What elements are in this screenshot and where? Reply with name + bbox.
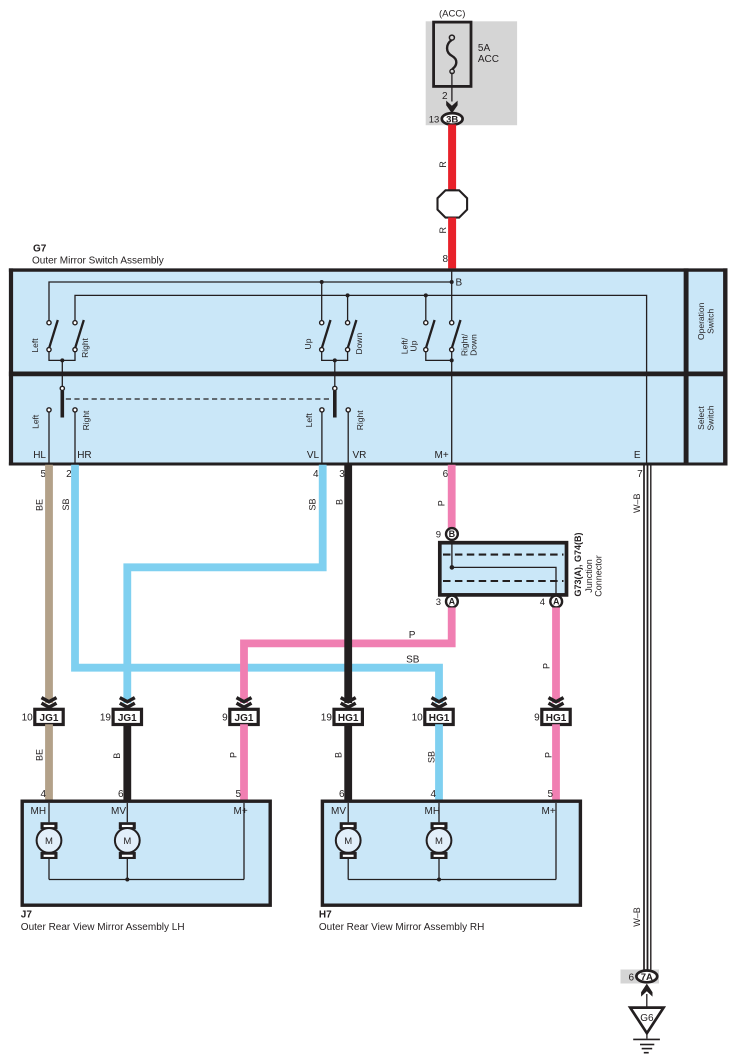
dashed link between select poles (66, 398, 332, 400)
svg-text:Up: Up (303, 338, 313, 349)
svg-text:JG1: JG1 (118, 713, 137, 724)
junction connector dashed rows (443, 554, 564, 556)
wire to ground point (646, 994, 648, 1008)
svg-text:J7: J7 (21, 910, 33, 921)
svg-text:P: P (409, 630, 416, 641)
wire pin8 stub to node B (451, 271, 453, 282)
junction (333, 358, 337, 362)
junction (60, 358, 64, 362)
svg-text:M: M (45, 836, 53, 847)
wire B from HG1-19 to H7 pin6 (344, 724, 352, 802)
wire MV pin to motor (126, 803, 128, 822)
arrow from ground into 7A (641, 984, 652, 997)
wire B from VR pin3 to HG1-19 (344, 465, 352, 703)
wire MH pin to motor (48, 803, 50, 822)
wire motor to common bus (48, 859, 50, 880)
wire motor to common bus (126, 859, 128, 880)
svg-text:Switch: Switch (705, 405, 715, 430)
splice octagon (438, 190, 468, 217)
wire Down switch to bus (347, 295, 349, 320)
mirror assembly J7 box (22, 801, 270, 905)
motor M mirror vertical LH (115, 822, 140, 859)
connector 7A oval (636, 971, 657, 983)
svg-text:B: B (112, 753, 122, 759)
connector 10 HG1 (412, 698, 454, 725)
wire P from JG1-9 to J7 pin5 (240, 724, 248, 802)
bus wire from Left switch to node B (49, 282, 452, 321)
svg-text:M: M (344, 836, 352, 847)
svg-text:M+: M+ (542, 806, 556, 817)
junction (424, 293, 428, 297)
svg-text:B: B (334, 499, 344, 505)
svg-text:JG1: JG1 (40, 713, 59, 724)
wire P from HG1-9 to H7 pin5 (552, 724, 560, 802)
motor M mirror horizontal RH (427, 822, 452, 859)
wire to select switch pole R (334, 360, 336, 386)
svg-text:G6: G6 (640, 1013, 654, 1024)
fuse pin 2 wire (451, 73, 453, 102)
svg-text:B: B (449, 529, 456, 539)
svg-text:Right: Right (355, 410, 365, 430)
svg-text:H7: H7 (319, 910, 332, 921)
H7 common bus (348, 879, 556, 881)
motor M mirror horizontal LH (37, 822, 62, 859)
wire Up switch to bus (321, 282, 323, 321)
connector 7A gray block (621, 970, 660, 984)
svg-text:A: A (553, 597, 560, 607)
operation switch contact Right/Down (450, 320, 461, 352)
svg-text:19: 19 (321, 712, 333, 723)
svg-text:HR: HR (77, 450, 91, 461)
wire SB from VL pin4 to JG1-19 (127, 465, 322, 703)
svg-text:10: 10 (412, 712, 424, 723)
svg-text:9: 9 (436, 530, 441, 541)
junction (450, 565, 455, 570)
connector 9 HG1 (534, 698, 570, 725)
wire SB from HR pin2 to HG1-10 (75, 465, 439, 703)
svg-text:9: 9 (222, 712, 228, 723)
svg-text:SB: SB (426, 751, 436, 763)
node B (450, 280, 454, 284)
svg-text:M+: M+ (435, 450, 449, 461)
wire M+ pin to common bus (243, 803, 245, 880)
svg-text:MV: MV (111, 806, 126, 817)
svg-text:P: P (544, 752, 554, 758)
arrow into connector 3B (446, 101, 457, 114)
svg-text:7: 7 (637, 469, 643, 480)
svg-text:Select: Select (696, 406, 706, 430)
wire BE from JG1-10 to J7 pin4 (45, 724, 53, 802)
svg-text:10: 10 (22, 712, 34, 723)
svg-text:Operation: Operation (696, 302, 706, 340)
svg-text:W–B: W–B (632, 907, 642, 927)
svg-text:3: 3 (436, 597, 441, 608)
wire joining Left\Up + Right\Down contacts (426, 352, 452, 361)
svg-text:19: 19 (100, 712, 112, 723)
junction (346, 293, 350, 297)
connector 10 JG1 (22, 698, 64, 725)
wire MH pin to motor (438, 803, 440, 822)
power source gray block (426, 21, 517, 125)
svg-text:Outer Mirror Switch Assembly: Outer Mirror Switch Assembly (32, 256, 164, 267)
junction (320, 280, 324, 284)
svg-text:R: R (438, 161, 448, 168)
wire node B to Right/Down switch (451, 282, 453, 321)
svg-text:5: 5 (235, 789, 241, 800)
svg-text:P: P (229, 752, 239, 758)
side label strip (684, 268, 689, 465)
divider operation/select (9, 372, 728, 377)
wire P from junction connector A3 to JG1-9 (244, 608, 452, 704)
ground point G6 triangle (630, 1008, 663, 1034)
svg-text:BE: BE (35, 499, 45, 511)
junction (125, 878, 129, 882)
select contact VR (346, 408, 350, 463)
svg-text:6: 6 (118, 789, 124, 800)
select contact HR (73, 408, 77, 463)
connector 19 JG1 (100, 698, 142, 725)
wire B from JG1-19 to J7 pin6 (123, 724, 131, 802)
select contact VL (320, 408, 324, 463)
svg-text:7A: 7A (641, 972, 653, 983)
svg-text:B: B (334, 752, 344, 758)
svg-text:Down: Down (469, 334, 479, 356)
junction connector internal wire (452, 544, 556, 594)
operation switch contact Right (73, 320, 84, 352)
wire P from M+ pin6 to junction connector B (448, 465, 456, 530)
wire R (red) from junction to G7 pin 8 (448, 218, 456, 269)
connector 19 HG1 (321, 698, 363, 725)
svg-text:Left: Left (304, 413, 314, 428)
svg-text:B: B (456, 278, 463, 289)
operation switch contact Down (346, 320, 357, 352)
G7 switch assembly box (9, 268, 728, 465)
svg-text:M+: M+ (234, 806, 248, 817)
svg-text:4: 4 (40, 789, 46, 800)
wire Left/Up switch to bus (425, 295, 427, 320)
svg-text:VR: VR (353, 450, 367, 461)
wire Right/Down contact down to pin M+ (451, 352, 453, 463)
svg-text:JG1: JG1 (235, 713, 254, 724)
svg-text:Left: Left (31, 414, 41, 429)
svg-text:5A: 5A (478, 43, 491, 54)
svg-text:G7: G7 (33, 244, 47, 255)
svg-text:Left: Left (30, 338, 40, 353)
svg-text:MH: MH (425, 806, 441, 817)
svg-text:HG1: HG1 (546, 713, 567, 724)
wire M+ pin to common bus (555, 803, 557, 880)
svg-text:W–B: W–B (632, 494, 642, 514)
svg-text:(ACC): (ACC) (439, 8, 465, 19)
svg-text:MH: MH (31, 806, 47, 817)
wire joining Left/Right contacts (49, 352, 75, 361)
svg-text:6: 6 (339, 789, 345, 800)
junction connector box (440, 543, 567, 595)
svg-text:Up: Up (409, 340, 419, 351)
svg-text:P: P (436, 500, 446, 506)
wire motor to common bus (347, 859, 349, 880)
svg-text:ACC: ACC (478, 54, 499, 65)
select switch pole right (333, 386, 337, 417)
svg-text:3B: 3B (446, 114, 458, 125)
svg-text:9: 9 (534, 712, 540, 723)
svg-text:Right: Right (80, 337, 90, 357)
select switch pole left (60, 386, 64, 417)
svg-text:SB: SB (61, 498, 71, 510)
fuse 5A ACC (434, 22, 471, 86)
svg-text:M: M (435, 836, 443, 847)
motor M mirror vertical RH (336, 822, 361, 859)
svg-text:4: 4 (430, 789, 436, 800)
ground symbol (633, 1033, 660, 1053)
bus wire from Right switch to pin E (75, 295, 647, 463)
svg-text:SB: SB (406, 655, 420, 666)
svg-text:Switch: Switch (705, 309, 715, 334)
svg-text:HG1: HG1 (338, 713, 359, 724)
svg-text:2: 2 (442, 91, 448, 102)
svg-text:P: P (542, 663, 552, 669)
svg-text:E: E (634, 450, 641, 461)
wire P from junction connector A4 to HG1-9 (552, 608, 560, 704)
mirror assembly H7 box (322, 801, 580, 905)
wire R (red) from 3B to junction (448, 125, 456, 191)
svg-text:Down: Down (354, 333, 364, 355)
svg-text:8: 8 (442, 254, 448, 265)
svg-text:A: A (449, 597, 456, 607)
svg-text:5: 5 (547, 789, 553, 800)
svg-text:6: 6 (443, 469, 449, 480)
wire W-B from pin E to connector 7A (643, 464, 645, 970)
svg-text:G73(A), G74(B): G73(A), G74(B) (573, 532, 583, 596)
svg-text:4: 4 (313, 469, 319, 480)
wire BE from HL pin5 to JG1 (45, 465, 53, 703)
operation switch contact Left/Up (424, 320, 435, 352)
J7 common bus (49, 879, 244, 881)
operation switch contact Left (47, 320, 58, 352)
wire to select switch pole L (61, 360, 63, 386)
svg-text:Outer Rear View Mirror Assembl: Outer Rear View Mirror Assembly LH (21, 922, 185, 933)
svg-text:HL: HL (33, 450, 46, 461)
svg-text:13: 13 (429, 115, 440, 126)
svg-text:R: R (438, 227, 448, 234)
svg-text:BE: BE (35, 749, 45, 761)
junction (450, 358, 454, 362)
svg-text:HG1: HG1 (429, 713, 450, 724)
wire SB from HG1-10 to H7 pin4 (435, 724, 443, 802)
svg-text:Outer Rear View Mirror Assembl: Outer Rear View Mirror Assembly RH (319, 922, 484, 933)
svg-text:M: M (123, 836, 131, 847)
svg-text:MV: MV (331, 806, 346, 817)
svg-text:SB: SB (307, 498, 317, 510)
svg-text:4: 4 (540, 597, 545, 608)
svg-text:6: 6 (628, 972, 634, 983)
wire MV pin to motor (347, 803, 349, 822)
wire motor to common bus (438, 859, 440, 880)
connector 9 JG1 (222, 698, 258, 725)
junction (437, 878, 441, 882)
svg-text:VL: VL (307, 450, 320, 461)
wire joining Up/Down contacts (322, 352, 348, 361)
select contact HL (47, 408, 51, 463)
svg-text:Right: Right (81, 410, 91, 430)
operation switch contact Up (320, 320, 331, 352)
svg-text:Connector: Connector (594, 555, 604, 597)
